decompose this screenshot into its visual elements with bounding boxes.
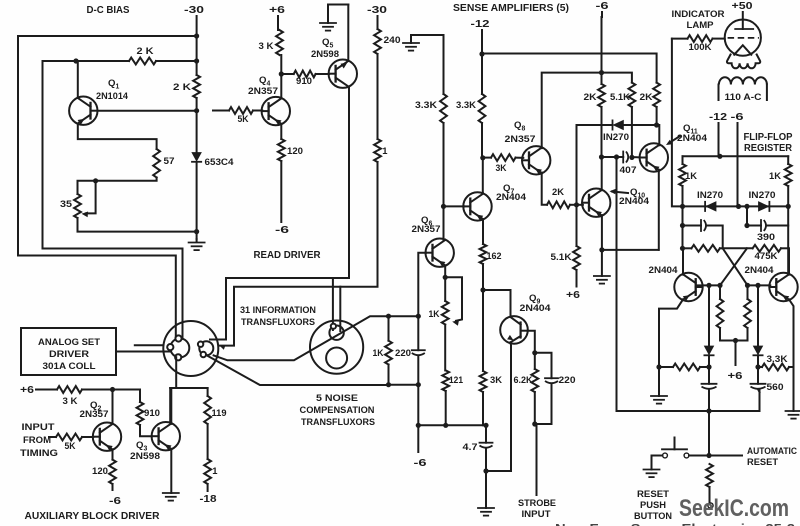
net +6 (read driver) (269, 5, 285, 16)
node Q6 emitter junction (443, 275, 448, 280)
transfluxor right (outer) (310, 321, 363, 374)
node wiper junction (93, 178, 98, 183)
svg-text:910: 910 (296, 75, 312, 86)
svg-text:FROM: FROM (23, 434, 51, 445)
svg-text:3.3K: 3.3K (415, 99, 437, 110)
wire 119 to 1 (207, 424, 209, 459)
node rail1 junction (717, 154, 722, 159)
svg-text:3K: 3K (496, 162, 507, 173)
label 2K (173, 81, 191, 92)
node -30/top-loop junction (194, 33, 199, 38)
ground (sense amp) (403, 35, 444, 51)
capacitor ff right 390 (747, 206, 788, 231)
svg-text:5.1K: 5.1K (551, 251, 572, 262)
svg-text:100K: 100K (689, 41, 712, 52)
wire Q10 collector (601, 157, 603, 190)
capacitor 220 (right) (535, 353, 558, 424)
resistor ff left (horizontal) (683, 245, 723, 252)
node Q4 collector junction (279, 71, 284, 76)
label 5.1K (610, 91, 630, 102)
label Q4 (259, 75, 270, 88)
net -6 (aux) (109, 496, 121, 507)
svg-text:3 K: 3 K (259, 40, 274, 51)
node +6 ff junction (733, 338, 738, 343)
wire 1K to 121 (444, 325, 446, 371)
svg-text:2 K: 2 K (137, 45, 154, 56)
label 653C4 (205, 156, 235, 167)
ground (ff left) (651, 396, 667, 404)
label Q1 (108, 78, 119, 91)
resistor 3.3K (a) (440, 35, 447, 123)
node low rail right (416, 382, 421, 387)
svg-text:-18: -18 (200, 494, 217, 505)
label 2K (640, 91, 653, 102)
wire 3K to 910 corner (82, 390, 140, 403)
svg-text:+50: +50 (732, 1, 753, 12)
wire low rail (389, 384, 419, 386)
svg-text:INPUT: INPUT (22, 421, 55, 432)
wire -12 lead (481, 30, 483, 94)
svg-text:PUSH: PUSH (640, 499, 666, 510)
label 2K (584, 91, 597, 102)
node top rail junction (599, 70, 604, 75)
svg-text:220: 220 (559, 374, 576, 385)
label 121 (449, 374, 463, 385)
label 220 (559, 374, 576, 385)
node Q7 base junction (441, 204, 446, 209)
svg-text:IN270: IN270 (603, 131, 629, 142)
label 57 (164, 155, 175, 166)
svg-text:1: 1 (212, 465, 218, 476)
wire ff-right collector (788, 248, 790, 274)
node mid rail left (386, 314, 391, 319)
svg-text:120: 120 (92, 465, 108, 476)
wire to +6 (576, 270, 578, 287)
block ANALOG SET DRIVER (21, 328, 116, 375)
svg-text:-6: -6 (414, 458, 427, 469)
label 3K (259, 40, 274, 51)
net -30 (left) (184, 5, 204, 16)
net -6 (read driver) (275, 225, 289, 236)
resistor 5K (read) (229, 107, 253, 114)
wire ff-left base (697, 284, 720, 286)
capacitor ff bottom-left (702, 367, 717, 456)
label 3K (490, 374, 502, 385)
wire button right to node (689, 455, 709, 457)
wire wiper loop (445, 277, 462, 325)
transistor Q11 (640, 143, 668, 171)
wire -30 rail down (196, 16, 198, 75)
title SENSE AMPLIFIERS (5) (453, 3, 569, 14)
resistor 1 (aux) (204, 459, 211, 484)
label 2N404 (619, 195, 650, 206)
wire diode-r column (757, 285, 759, 345)
label 910 (296, 75, 312, 86)
net -12 (ff) (709, 112, 727, 123)
wire 3.3K(b) to Q7 collector (481, 123, 484, 193)
label 120 (287, 145, 303, 156)
wire Q1 emitter to 57 (78, 124, 157, 149)
svg-text:2N357: 2N357 (80, 408, 109, 419)
svg-text:240: 240 (384, 34, 401, 45)
svg-text:AUXILIARY BLOCK DRIVER: AUXILIARY BLOCK DRIVER (25, 511, 160, 522)
diode 653C4 (192, 153, 201, 162)
wire 910 to Q3 base (140, 425, 152, 436)
svg-text:IN270: IN270 (697, 189, 723, 200)
resistor 475K (723, 245, 789, 252)
wire cross diag 1 (723, 248, 748, 285)
net +6 (sense) (566, 290, 580, 301)
wire Q9 base (483, 290, 511, 316)
node mid rail right (416, 314, 421, 319)
label IN270 (ff left) (697, 189, 723, 200)
svg-text:New From Sperry Electronics 25: New From Sperry Electronics 25-2 (555, 522, 795, 526)
wire 220 to -6 bus (417, 385, 419, 426)
transistor Q ff-left (674, 273, 702, 301)
label 2N357 (505, 133, 536, 144)
label Q10 (630, 187, 645, 200)
svg-text:RESET: RESET (747, 456, 778, 467)
wire -30 line to diode (196, 98, 198, 152)
ground (ff right) (786, 411, 800, 419)
node rail2 junctions (680, 204, 791, 209)
net +6 (aux) (20, 385, 34, 396)
label 3.3K (456, 99, 476, 110)
wire Q4 emitter to 120 (280, 124, 282, 139)
watermark bottom crop (555, 522, 795, 526)
node bus junctions (416, 423, 489, 428)
capacitor 560 (751, 367, 766, 392)
label 2N598 (311, 48, 339, 59)
resistor 2K (right of trio) (653, 83, 660, 107)
transfluxor left core B (198, 341, 213, 357)
label 1 (382, 145, 388, 156)
svg-text:2K: 2K (640, 91, 653, 102)
resistor 3.3K (ff) (758, 364, 794, 371)
label AUTOMATIC RESET (747, 445, 797, 467)
wire Q10 label arrow (610, 189, 629, 194)
svg-text:+6: +6 (566, 290, 580, 301)
net -30 (right) (367, 5, 387, 16)
label 3.3K (415, 99, 437, 110)
wire 3.3K(a) down to Q7 base junction (443, 123, 445, 240)
wire +6 aux lead (36, 389, 57, 391)
wire ff rail1 (683, 155, 789, 157)
svg-text:2N404: 2N404 (649, 264, 679, 275)
resistor 3K (low) (480, 371, 487, 392)
resistor 57 (153, 149, 160, 178)
node cap-l junction (680, 223, 685, 228)
label 407 (620, 164, 637, 175)
label 31 INFORMATION TRANSFLUXORS (240, 304, 316, 327)
label 475K (755, 250, 778, 261)
transistor Q7 (463, 192, 491, 220)
svg-text:3 K: 3 K (63, 395, 78, 406)
wire Q6 base (418, 253, 426, 317)
label 3K (aux) (63, 395, 78, 406)
wire automatic reset lead (709, 455, 742, 457)
wire -6 bus (418, 424, 486, 426)
label 5 NOISE COMPENSATION TRANSFLUXORS (300, 392, 376, 427)
label 35 (60, 198, 72, 209)
node 3.3K row junction (755, 364, 760, 369)
resistor 5.1K (low) (573, 246, 580, 270)
wire -30 lead (377, 16, 379, 139)
node reset rail crossing (706, 408, 711, 413)
label RESET PUSH BUTTON (634, 488, 672, 521)
wire reset resistor tail (709, 487, 711, 503)
net -6 (ff) (731, 112, 744, 123)
diode IN270 (sense) (613, 120, 624, 129)
svg-text:2N357: 2N357 (248, 85, 278, 96)
label 1K (429, 308, 440, 319)
svg-text:2N357: 2N357 (412, 223, 441, 234)
node Q9 base junction (480, 287, 485, 292)
svg-text:407: 407 (620, 164, 637, 175)
svg-text:2N404: 2N404 (496, 191, 527, 202)
wire right column (787, 206, 789, 273)
label 1 (aux) (212, 465, 218, 476)
label 2N357 (Q2) (80, 408, 109, 419)
wire -6 ground stub (601, 250, 603, 276)
wire Q10 base (577, 204, 583, 206)
wire Q11 collector (657, 125, 660, 145)
svg-text:RESET: RESET (637, 488, 669, 499)
wire pot to bottom rail (78, 218, 197, 232)
label 1K (373, 347, 384, 358)
label 162 (487, 250, 502, 261)
wire bar right leg to 119 (207, 388, 209, 396)
capacitor 4.7 (480, 425, 493, 471)
node IN270/2K junction (654, 122, 659, 127)
svg-text:119: 119 (212, 407, 227, 418)
svg-text:35: 35 (60, 198, 72, 209)
svg-text:INDICATOR: INDICATOR (672, 8, 725, 19)
transfluxor right core bottom (326, 348, 347, 369)
resistor 6.2K (531, 353, 538, 392)
wire thread A into transfluxor (332, 278, 334, 330)
svg-text:SeekIC.com: SeekIC.com (679, 495, 789, 522)
svg-text:REGISTER: REGISTER (744, 143, 793, 154)
label 220 (395, 347, 411, 358)
wire 100K rail (672, 38, 688, 40)
svg-text:120: 120 (287, 145, 303, 156)
label 560 (767, 381, 784, 392)
node reset row junction (706, 364, 711, 369)
wire diode-l column (708, 285, 710, 345)
transistor Q ff-right (769, 273, 797, 301)
svg-text:5K: 5K (238, 113, 249, 124)
svg-text:STROBE: STROBE (518, 497, 556, 508)
wire 120 to -6 (280, 161, 282, 222)
node push button junction (706, 453, 711, 458)
label 2N404 (496, 191, 527, 202)
resistor 120 (aux) (109, 460, 116, 484)
wire Q6 emitter (444, 265, 446, 277)
node res-l junction (680, 246, 685, 251)
label Q11 (683, 123, 698, 136)
label 2N1014 (96, 90, 129, 101)
node 407 rail junctions (599, 154, 635, 160)
svg-text:2N404: 2N404 (745, 264, 775, 275)
node ff-left base junctions (706, 283, 722, 288)
resistor 120 (278, 139, 285, 161)
wire 121 to bus (445, 391, 447, 425)
resistor 100K (688, 35, 713, 42)
svg-text:INPUT: INPUT (522, 508, 551, 519)
wire Q7 base (444, 205, 465, 207)
svg-text:-12: -12 (471, 19, 490, 30)
svg-text:READ DRIVER: READ DRIVER (254, 250, 321, 261)
svg-text:110 A-C: 110 A-C (725, 91, 762, 102)
wire -6 line down (601, 12, 604, 84)
resistor 240 (374, 29, 381, 54)
label 2N598 (Q3) (130, 450, 160, 461)
wire inner loop from 2K row to transfluxor (43, 61, 183, 339)
svg-text:121: 121 (449, 374, 463, 385)
wire 3K to bus (482, 392, 484, 425)
label 5.1K (551, 251, 572, 262)
wire 2K-left to 407 rail (601, 107, 603, 157)
resistor 2K (horizontal top) (76, 58, 197, 65)
wire 407 rail (602, 156, 641, 158)
net -6 (sense top) (596, 1, 609, 12)
label Q7 (503, 183, 514, 196)
label 2N357 (412, 223, 441, 234)
label 6.2K (514, 374, 533, 385)
wire ff-right emitter (789, 299, 794, 411)
label 2N404 (ff left) (649, 264, 679, 275)
svg-text:COMPENSATION: COMPENSATION (300, 404, 375, 415)
label 1K (ff right) (769, 170, 781, 181)
wire analog drive A (135, 344, 164, 346)
wire Q11 label arrow (666, 136, 680, 145)
label Q2 (90, 400, 101, 413)
label 119 (212, 407, 227, 418)
title FLIP-FLOP REGISTER (744, 132, 793, 154)
wire button left to ground (652, 456, 663, 470)
wire left emitter to ground (658, 367, 660, 396)
svg-text:2N357: 2N357 (505, 133, 536, 144)
svg-text:653C4: 653C4 (205, 156, 235, 167)
svg-text:SENSE AMPLIFIERS (5): SENSE AMPLIFIERS (5) (453, 3, 569, 14)
resistor 1K (ff left) (679, 156, 686, 206)
svg-text:6.2K: 6.2K (514, 374, 533, 385)
svg-text:BUTTON: BUTTON (634, 510, 672, 521)
resistor 121 (442, 370, 449, 391)
node ff-right base junctions (745, 283, 761, 288)
svg-text:2N598: 2N598 (130, 450, 160, 461)
wire diode-l to row (708, 355, 710, 367)
resistor 3K (276, 30, 283, 55)
terminal circle (708, 503, 713, 508)
label Q8 (514, 120, 525, 133)
wire bar left leg (169, 388, 171, 422)
node -30/2K-row junction (194, 58, 199, 63)
wire ff-left emitter (659, 299, 683, 367)
wire noise diag (205, 355, 388, 385)
svg-text:3.3K: 3.3K (456, 99, 476, 110)
ground (above Q5) (320, 5, 348, 31)
label INDICATOR LAMP (672, 8, 725, 30)
switch reset push button (662, 438, 689, 458)
svg-text:301A COLL: 301A COLL (43, 360, 96, 371)
node strobe junction (532, 421, 537, 426)
wire Q11 emitter (658, 170, 660, 250)
resistor 3K (sense) (483, 154, 524, 161)
node Q1 collector junction (73, 58, 78, 63)
label Q3 (136, 440, 147, 453)
svg-text:220: 220 (395, 347, 411, 358)
net +50 (732, 1, 753, 12)
wire 5.1K low (576, 205, 578, 246)
node Q9 emitter junction (532, 350, 537, 355)
wire -12 ff lead (718, 123, 720, 156)
wire -6 stub (417, 425, 419, 452)
capacitor 220 (left) (412, 316, 425, 385)
resistor 3.3K (b) (479, 94, 486, 123)
ground (push button) (644, 470, 660, 478)
ground (strobe) (478, 508, 494, 516)
resistor 2K (left of trio) (598, 84, 605, 107)
wire analog drive B (116, 351, 171, 353)
wire +6 ff stub (735, 341, 737, 366)
transistor Q8 (522, 146, 550, 174)
label 4.7 (463, 441, 478, 452)
label IN270 (ff right) (749, 189, 776, 200)
label Q9 (529, 293, 540, 306)
wire ff-right base (748, 284, 771, 286)
wire 4.7 to ground (485, 471, 487, 508)
svg-text:5 NOISE: 5 NOISE (316, 392, 358, 403)
wire 2K-right to IN270 (656, 107, 658, 125)
node Q10 base junction (574, 202, 579, 207)
label 5K (238, 113, 249, 124)
svg-text:475K: 475K (755, 250, 778, 261)
wire 162 to Q9 base junction (482, 264, 484, 371)
wire 5.1K to 407 rail (631, 107, 633, 157)
resistor 1K (ff right) (785, 156, 792, 206)
label 2N404 (677, 132, 708, 143)
transistor Q9 (500, 316, 528, 344)
svg-text:-6: -6 (596, 1, 609, 12)
svg-text:3K: 3K (490, 374, 502, 385)
watermark SeekIC.com (679, 495, 789, 522)
capacitor 407 (623, 152, 628, 163)
label 100K (689, 41, 712, 52)
label IN270 (603, 131, 629, 142)
resistor 1 (374, 139, 381, 162)
title D-C BIAS (87, 5, 130, 16)
transfluxor right core top (329, 324, 343, 340)
label 240 (384, 34, 401, 45)
label Q6 (421, 215, 432, 228)
title AUXILIARY BLOCK DRIVER (25, 511, 160, 522)
svg-text:ANALOG SET: ANALOG SET (38, 336, 100, 347)
transistor Q2 (93, 423, 121, 451)
node low rail left (386, 382, 391, 387)
resistor 910 (aux) (137, 402, 144, 425)
ground (-6 line) (594, 276, 610, 284)
wire Q9 emitter (528, 331, 535, 353)
transistor Q4 (262, 97, 290, 125)
net -6 (bus) (414, 458, 427, 469)
node left ground row junction (656, 364, 661, 369)
wire -12 rail to 2K right (482, 54, 657, 83)
ground (Q3) (163, 493, 179, 501)
wire +6 ff bar (720, 340, 748, 342)
svg-text:2K: 2K (552, 186, 564, 197)
